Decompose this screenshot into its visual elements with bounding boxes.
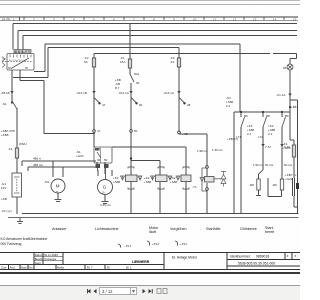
svg-text:B+ 50 15a: B+ 50 15a	[15, 52, 26, 54]
svg-text:+P14: +P14	[152, 242, 159, 246]
svg-text:60: 60	[134, 129, 138, 133]
svg-text:11: 11	[213, 17, 216, 21]
svg-text:Nam: Nam	[21, 266, 28, 270]
svg-text:±: ±	[295, 254, 297, 258]
svg-text:96: 96	[283, 66, 287, 70]
svg-text:-X8.1B: -X8.1B	[1, 91, 10, 95]
svg-text:3~: 3~	[102, 191, 106, 195]
svg-text:Maße: Maße	[57, 266, 65, 270]
svg-text:4B6 sw: 4B6 sw	[33, 163, 44, 167]
svg-text:48: 48	[187, 103, 191, 107]
svg-text:-R6: -R6	[272, 183, 277, 187]
svg-text:-X14.1A: -X14.1A	[163, 91, 174, 95]
svg-text:+G20: +G20	[76, 154, 84, 158]
svg-text:+B8: +B8	[291, 105, 297, 109]
svg-text:30 51 50e 15 54 19: 30 51 50e 15 54 19	[9, 60, 27, 62]
svg-text:5638-605.09.39.051-000: 5638-605.09.39.051-000	[238, 262, 275, 266]
svg-text:-X14.1B: -X14.1B	[76, 91, 87, 95]
svg-text:+KB: +KB	[1, 197, 7, 201]
svg-text:8.7: 8.7	[115, 86, 120, 90]
svg-text:30: 30	[97, 158, 101, 162]
svg-text:50: 50	[104, 158, 108, 162]
svg-text:1.36 ms: 1.36 ms	[212, 148, 223, 152]
svg-text:Änd.: Änd.	[10, 266, 16, 270]
svg-text:LIEBHERR: LIEBHERR	[132, 260, 150, 264]
svg-text:El. Anlage Motor: El. Anlage Motor	[172, 256, 198, 260]
svg-text:-C1 1A: -C1 1A	[276, 93, 285, 97]
svg-text:9869018: 9869018	[256, 255, 269, 259]
svg-text:1L1.2S1: 1L1.2S1	[2, 18, 12, 21]
svg-text:+S88: +S88	[170, 180, 177, 184]
svg-text:KO Armaturen kraftÜbertrabine: KO Armaturen kraftÜbertrabine	[1, 237, 48, 241]
svg-text:Lichtmaschine: Lichtmaschine	[95, 227, 119, 231]
svg-text:9.10: 9.10	[284, 145, 290, 149]
svg-text:50 ms: 50 ms	[265, 163, 274, 167]
svg-text:Anlasser: Anlasser	[52, 227, 67, 231]
svg-text:+S88: +S88	[113, 180, 120, 184]
svg-text:B6: B6	[244, 114, 248, 118]
svg-text:Umberger: Umberger	[44, 257, 57, 261]
svg-text:läuft: läuft	[149, 230, 156, 234]
svg-text:-M1: -M1	[44, 180, 49, 184]
svg-text:10: 10	[193, 17, 197, 21]
svg-text:-F1: -F1	[170, 60, 175, 64]
svg-text:Gepr.: Gepr.	[35, 261, 42, 265]
svg-text:50a: 50a	[134, 72, 139, 76]
svg-text:-F1: -F1	[8, 147, 13, 151]
svg-text:+P11: +P11	[180, 242, 187, 246]
svg-text:=: =	[56, 190, 58, 194]
svg-text:47: 47	[97, 129, 101, 133]
svg-text:+KB8: +KB8	[1, 133, 9, 137]
svg-text:Identnummer:: Identnummer:	[230, 255, 251, 259]
svg-text:50 ms: 50 ms	[284, 163, 293, 167]
svg-text:W6/H: W6/H	[19, 142, 27, 146]
svg-text:Bl.: Bl.	[107, 266, 110, 270]
svg-text:Vorglühen: Vorglühen	[170, 227, 187, 231]
svg-text:-Y1: -Y1	[192, 185, 197, 189]
svg-text:Bl. 1: Bl. 1	[126, 266, 132, 270]
svg-text:47: 47	[102, 103, 106, 107]
svg-text:000 Fahrzeug: 000 Fahrzeug	[1, 242, 22, 246]
svg-text:7.72: 7.72	[265, 145, 271, 149]
svg-text:2.4: 2.4	[247, 132, 252, 136]
svg-text:Glühkerze: Glühkerze	[240, 227, 257, 231]
svg-text:30: 30	[136, 81, 140, 85]
svg-text:-X1 (+)=: -X1 (+)=	[1, 209, 12, 213]
svg-text:3.36 ms: 3.36 ms	[100, 203, 111, 207]
svg-text:G: G	[103, 185, 107, 190]
svg-text:12: 12	[233, 17, 237, 21]
svg-text:13: 13	[253, 17, 257, 21]
svg-text:5A: 5A	[84, 60, 88, 64]
svg-text:B8: B8	[266, 114, 270, 118]
svg-text:+KB7(7): +KB7(7)	[227, 137, 238, 141]
svg-text:No: No	[29, 266, 33, 270]
svg-text:M: M	[56, 184, 60, 189]
svg-text:12V: 12V	[1, 186, 6, 190]
svg-text:.: .	[200, 227, 201, 231]
svg-text:+S88: +S88	[144, 180, 151, 184]
svg-text:2.4: 2.4	[226, 104, 231, 108]
svg-text:bereit: bereit	[265, 230, 274, 234]
svg-text:Starthilfe: Starthilfe	[206, 227, 221, 231]
svg-text:1.98 ms: 1.98 ms	[197, 149, 208, 153]
svg-text:-X14.1A: -X14.1A	[118, 91, 129, 95]
svg-text:+G20: +G20	[285, 177, 293, 181]
svg-text:B6: B6	[285, 114, 289, 118]
svg-text:→P17: →P17	[123, 244, 132, 248]
svg-text:2.4: 2.4	[268, 132, 273, 136]
svg-text:15: 15	[293, 17, 297, 21]
svg-text:+KB: +KB	[182, 132, 188, 136]
svg-text:Zust: Zust	[1, 266, 7, 270]
svg-text:-S1: -S1	[2, 102, 7, 106]
svg-text:60: 60	[139, 103, 143, 107]
svg-text:1.50 ms: 1.50 ms	[253, 163, 264, 167]
svg-text:15A: 15A	[120, 60, 125, 64]
svg-text:L72: L72	[258, 135, 263, 139]
svg-text:Bl. 7: Bl. 7	[87, 266, 93, 270]
svg-text:±: ±	[287, 254, 289, 258]
svg-text:4B6 rt: 4B6 rt	[33, 157, 41, 161]
svg-text:-R8: -R8	[249, 183, 254, 187]
svg-text:14: 14	[273, 17, 277, 21]
